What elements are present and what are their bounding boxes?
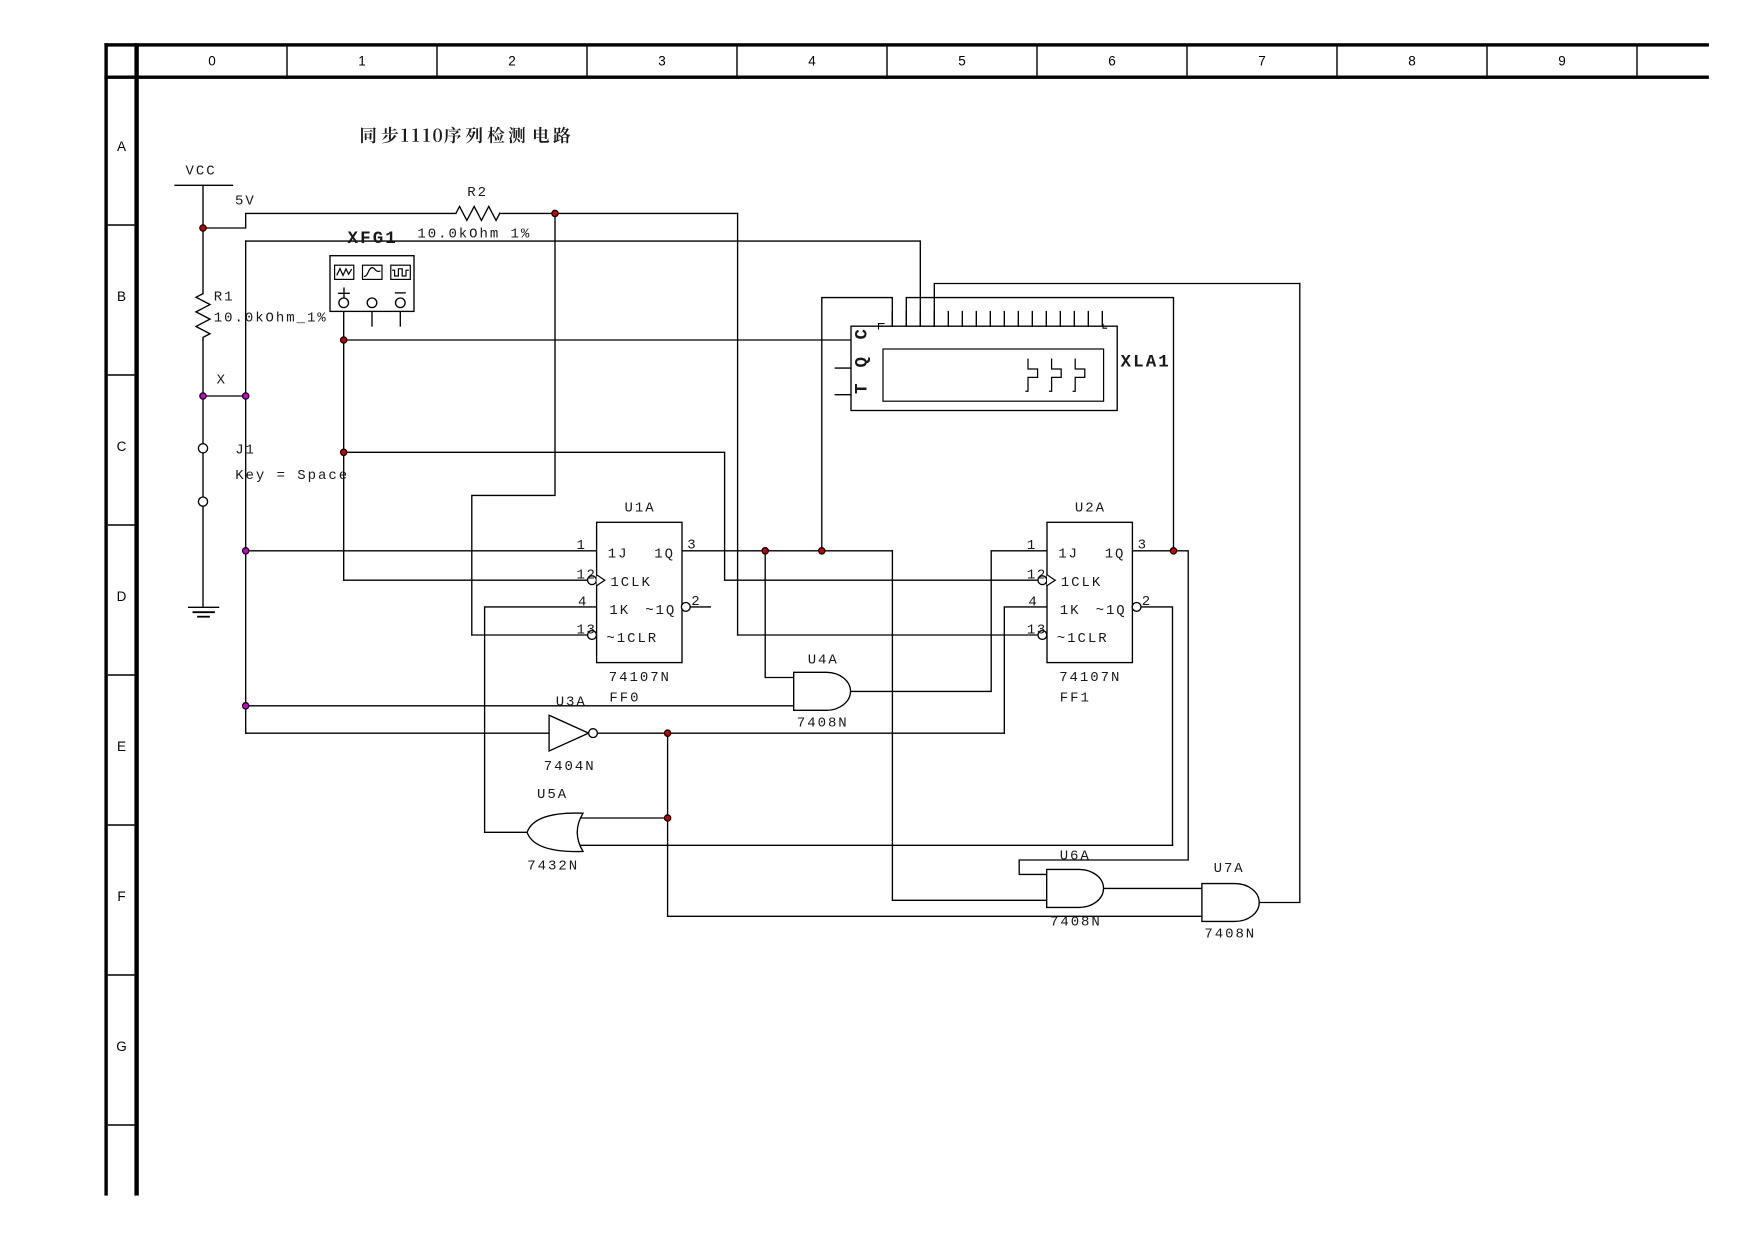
wire J1 bottom to ground	[202, 506, 204, 607]
junction node X left	[200, 393, 206, 399]
resistor R2	[456, 206, 500, 220]
svg-text:1: 1	[577, 538, 587, 554]
wire J1 blade	[202, 448, 204, 501]
svg-text:U4A: U4A	[808, 653, 839, 669]
wire XFG1 plus terminal down	[343, 308, 345, 581]
svg-text:G: G	[116, 1039, 127, 1054]
sheet border: left outer vertical line	[104, 43, 107, 1195]
svg-text:Key = Space: Key = Space	[235, 468, 349, 484]
junction X at U1A 1J	[243, 548, 249, 554]
svg-text:C: C	[853, 327, 873, 340]
logic analyzer XLA1	[835, 312, 1117, 411]
svg-text:U5A: U5A	[537, 787, 568, 803]
svg-text:~1Q: ~1Q	[645, 603, 676, 619]
wire U5A output to U1A 1K	[485, 607, 597, 832]
JK flip-flop U2A	[1038, 522, 1141, 662]
svg-text:7432N: 7432N	[527, 858, 579, 874]
wire R1 bottom to X node	[202, 340, 204, 396]
svg-text:FF0: FF0	[609, 691, 640, 707]
function generator XFG1	[330, 256, 414, 312]
svg-text:E: E	[117, 739, 126, 754]
svg-text:5V: 5V	[235, 194, 256, 210]
resistor R1	[196, 294, 210, 341]
svg-text:7408N: 7408N	[1204, 926, 1256, 942]
wire Z to XLA1 pin4	[934, 284, 1300, 327]
wire X node horizontal	[203, 395, 246, 397]
wire clock to U2A 1CLK	[725, 579, 1038, 581]
XLA1 screen waveform glyph 2	[1050, 359, 1062, 391]
svg-text:~1CLR: ~1CLR	[606, 631, 658, 647]
svg-text:3: 3	[687, 538, 697, 554]
svg-text:7: 7	[1258, 54, 1266, 69]
svg-text:U1A: U1A	[625, 501, 656, 517]
XLA1 left pin stub T	[835, 394, 851, 396]
ground	[189, 607, 219, 616]
wire Xbar to U7A input B	[668, 915, 1202, 917]
svg-text:U7A: U7A	[1214, 861, 1245, 877]
svg-text:4: 4	[578, 594, 588, 610]
junction X at U4A branch	[243, 703, 249, 709]
sheet border: inner left vertical line	[134, 43, 138, 1195]
wire X down to inverter row	[245, 706, 247, 733]
wire Q1 up to XLA1 pin2	[906, 298, 1173, 551]
svg-text:Q: Q	[853, 355, 873, 368]
XLA1 top pin stubs	[892, 312, 1102, 327]
wire Q0 from U1A 1Q	[682, 550, 892, 552]
svg-text:13: 13	[577, 623, 597, 639]
wire X to U4A input B	[246, 705, 794, 707]
wire Q0 to U4A input A	[765, 551, 794, 678]
AND gate U4A	[794, 672, 851, 710]
wire X net top corner to XLA1 pin3	[246, 241, 921, 326]
XLA1 tiny corner mark right	[1103, 324, 1107, 328]
junction Xbar at U3A output	[664, 730, 670, 736]
wire Q1bar to U5A input B	[578, 844, 1173, 846]
svg-text:2: 2	[508, 54, 516, 69]
junction Q1 at U2A 1Q	[1170, 548, 1176, 554]
svg-text:1J: 1J	[608, 546, 629, 562]
XLA1 left pin stub Q	[835, 367, 851, 369]
svg-text:X: X	[217, 372, 227, 388]
junction node X right	[243, 393, 249, 399]
wire R2out to U2A ~1CLR	[738, 634, 1038, 636]
AND gate U6A	[1047, 869, 1104, 907]
wire Q0 down to U6A input B	[892, 551, 1046, 901]
wire J1 top	[202, 396, 204, 444]
XLA1 screen waveform glyph 3	[1073, 359, 1085, 391]
wire Xbar to U2A 1K	[1004, 607, 1047, 733]
svg-text:VCC: VCC	[186, 164, 217, 180]
svg-text:9: 9	[1558, 54, 1566, 69]
wire Q0 up to XLA1 pin1	[822, 298, 893, 551]
JK flip-flop U1A	[588, 522, 691, 662]
svg-text:7408N: 7408N	[1050, 914, 1102, 930]
svg-text:1CLK: 1CLK	[610, 575, 651, 591]
svg-text:U3A: U3A	[556, 694, 587, 710]
svg-text:7408N: 7408N	[797, 716, 849, 732]
wire Z from U7A output	[1259, 284, 1300, 903]
junction clock to XLA1 C	[341, 337, 347, 343]
wire Xbar down	[667, 733, 669, 916]
wire R2 right to corner at col4	[500, 212, 738, 214]
wire XFG1 common stub	[371, 308, 373, 326]
wire 5V junction to step	[203, 213, 456, 228]
svg-text:2: 2	[1142, 594, 1152, 610]
svg-text:1K: 1K	[609, 603, 630, 619]
svg-text:1K: 1K	[1060, 603, 1081, 619]
wire U6A output to U7A input A	[1104, 887, 1202, 889]
XLA1 tiny corner mark left	[879, 324, 885, 329]
svg-text:R2: R2	[467, 185, 488, 201]
switch J1	[198, 444, 207, 507]
svg-text:J1: J1	[235, 443, 256, 459]
inverter U3A	[549, 715, 597, 751]
row letters	[116, 139, 127, 1054]
junction 5V at VCC	[200, 225, 206, 231]
wire X to U1A 1J	[246, 550, 597, 552]
svg-text:D: D	[117, 589, 127, 604]
wire clock branch right	[344, 452, 725, 580]
svg-text:1: 1	[1027, 538, 1037, 554]
wire U4A output to U2A 1J	[851, 551, 1048, 692]
junction Q0 to XLA1	[819, 548, 825, 554]
column dividers	[287, 47, 1637, 76]
wire R1 top	[202, 228, 204, 294]
svg-text:8: 8	[1408, 54, 1416, 69]
svg-text:4: 4	[808, 54, 816, 69]
svg-text:0: 0	[208, 54, 216, 69]
wire Xbar to U5A input A	[578, 817, 668, 819]
svg-text:C: C	[117, 439, 127, 454]
wire XFG1 minus stub	[399, 308, 401, 326]
svg-text:1: 1	[358, 54, 366, 69]
wire U1A ~1Q stub	[690, 606, 710, 608]
power VCC symbol	[175, 184, 233, 186]
wire R2out branch down from dot	[472, 213, 555, 635]
junction clock branch	[341, 449, 347, 455]
svg-text:1Q: 1Q	[1105, 546, 1126, 562]
wire clock to XLA1 C pin	[344, 339, 851, 341]
OR gate U5A (mirrored, output left)	[527, 813, 583, 851]
svg-text:XFG1: XFG1	[348, 229, 398, 249]
svg-text:1CLK: 1CLK	[1061, 575, 1102, 591]
title text: 同步1110序列检测电路	[361, 127, 570, 144]
svg-text:1Q: 1Q	[654, 546, 675, 562]
svg-text:1J: 1J	[1058, 546, 1079, 562]
svg-text:T: T	[853, 381, 873, 394]
svg-text:B: B	[117, 289, 126, 304]
wire VCC bar to junction	[202, 185, 204, 228]
XLA1 screen waveform glyph 1	[1026, 359, 1038, 391]
svg-text:3: 3	[1138, 538, 1148, 554]
junction R2 output	[552, 210, 558, 216]
junction Xbar at U5A input	[664, 815, 670, 821]
svg-text:~1Q: ~1Q	[1096, 603, 1127, 619]
svg-text:74107N: 74107N	[1059, 670, 1121, 686]
svg-text:10.0kOhm 1%: 10.0kOhm 1%	[417, 227, 531, 243]
wire R2out down right column	[737, 213, 739, 635]
wire X net vertical	[245, 241, 247, 706]
sheet border: column header bottom thick line	[104, 76, 1709, 79]
svg-text:7404N: 7404N	[544, 759, 596, 775]
AND gate U7A	[1202, 884, 1259, 922]
svg-text:A: A	[117, 139, 126, 154]
svg-text:F: F	[117, 889, 125, 904]
wire Q1bar from U2A ~1Q	[1141, 607, 1173, 845]
svg-text:R1: R1	[214, 290, 235, 306]
svg-text:74107N: 74107N	[609, 670, 671, 686]
svg-text:FF1: FF1	[1060, 691, 1091, 707]
wire U3A output to corner	[598, 732, 1005, 734]
svg-text:6: 6	[1108, 54, 1116, 69]
wire R2out to U1A ~1CLR	[472, 634, 588, 636]
row dividers	[108, 225, 135, 1125]
column numbers	[208, 54, 1566, 69]
wire Q1 from U2A 1Q	[1132, 550, 1173, 552]
wire Q1 jog down to U6A input A	[1019, 551, 1188, 875]
sheet border: top horizontal thick line	[104, 43, 1709, 46]
svg-text:XLA1: XLA1	[1121, 352, 1171, 372]
wire X to U3A input	[246, 732, 549, 734]
svg-text:U6A: U6A	[1060, 848, 1091, 864]
svg-text:5: 5	[958, 54, 966, 69]
svg-text:4: 4	[1028, 594, 1038, 610]
svg-text:U2A: U2A	[1075, 501, 1106, 517]
junction Q0 to U4A	[762, 548, 768, 554]
wire clock to U1A 1CLK	[344, 579, 588, 581]
svg-text:3: 3	[658, 54, 666, 69]
svg-text:10.0kOhm_1%: 10.0kOhm_1%	[214, 311, 328, 327]
svg-text:13: 13	[1027, 623, 1047, 639]
svg-text:~1CLR: ~1CLR	[1057, 631, 1109, 647]
svg-text:12: 12	[1027, 568, 1047, 584]
svg-text:2: 2	[691, 594, 701, 610]
svg-text:12: 12	[577, 568, 597, 584]
